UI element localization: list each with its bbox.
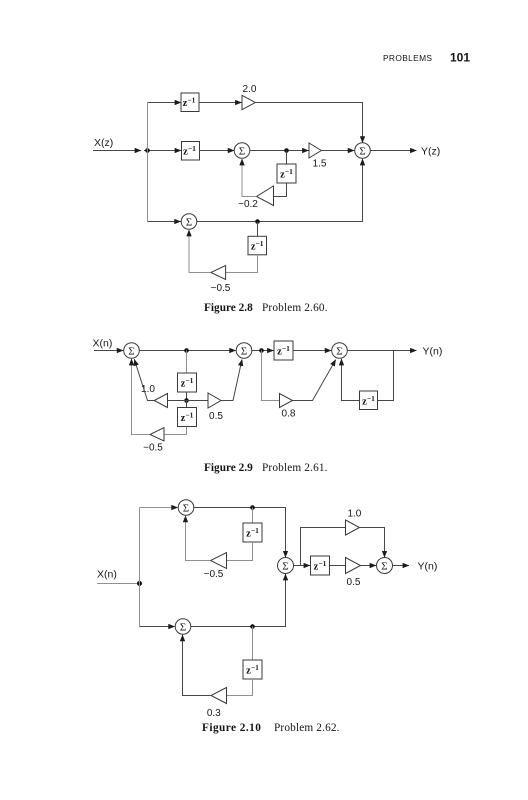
wire adder S4 to adder S5 [139,350,235,352]
wire d3 down and right to gain 0.8 [262,351,280,401]
wire gain -0.2 back to adder S1 [242,159,257,197]
wire gain 0.3 back to adder S8 bottom [183,635,212,696]
gain -0.5 triangle fig2 [150,428,164,442]
wire delay U7 to adder S6 [293,350,331,352]
wire gain 1.5 to adder S2 [321,150,354,152]
wire delay U9 to gain -0.5 fig3 [227,542,253,561]
junction dot after S1 [284,148,289,153]
delay z-1 U4 feedback row3 [248,236,267,255]
svg-text:Figure 2.10: Figure 2.10 [202,722,261,734]
adder S3 sigma [181,214,197,230]
adder S1 sigma [234,143,250,159]
svg-text:Σ: Σ [282,560,288,572]
junction dot a fig3 [250,505,255,510]
gain -0.5 triangle fig3 [211,553,227,569]
wire adder S3 to adder S2 bottom [197,159,363,222]
delay z-1 U6 [178,408,197,427]
svg-text:Σ: Σ [359,145,365,157]
wire junction through to delay box row2 [144,150,181,152]
delay z-1 U8 [360,391,378,410]
svg-text:X(z): X(z) [94,137,113,149]
junction dot input branch [145,148,150,153]
svg-text:1.5: 1.5 [313,159,327,170]
wire dot b down to delay U10 [252,627,254,661]
junction dot row3 [255,219,260,224]
svg-text:2.0: 2.0 [243,84,257,95]
svg-text:Y(n): Y(n) [423,346,443,358]
svg-text:Problem 2.61.: Problem 2.61. [262,462,328,474]
wire dot a down to delay U9 [252,508,254,524]
wire delay U5 to junction d2 [186,392,188,401]
svg-text:−0.5: −0.5 [143,443,163,454]
wire junction down into feedback delay U3 [286,151,288,165]
svg-text:1.0: 1.0 [347,509,361,520]
delay z-1 U7 [274,341,293,360]
svg-text:Problem 2.62.: Problem 2.62. [274,722,340,734]
svg-text:−0.2: −0.2 [238,199,258,210]
svg-text:Σ: Σ [186,216,192,228]
wire delay U4 to gain -0.5 [226,255,258,273]
wire branch vertical [147,103,149,222]
wire gain 0.5 diagonal to adder S5 [221,360,242,401]
svg-text:101: 101 [450,51,470,65]
svg-text:Σ: Σ [381,560,387,572]
wire X(z) input to junction [93,150,141,152]
delay z-1 U5 [178,373,197,392]
wire adder S7 to adder S9 top [194,508,286,558]
adder S7 sigma [178,500,194,516]
gain 2.0 triangle [242,95,255,109]
wire branch to delay box row1 [148,102,182,104]
wire branch vertical fig3 [139,508,141,627]
svg-text:Figure 2.9: Figure 2.9 [204,462,253,474]
wire branch top to adder S7 [140,507,178,509]
wire gain 0.5 to adder S10 [361,565,377,567]
gain 0.8 triangle [280,394,293,408]
svg-text:Figure 2.8: Figure 2.8 [204,302,253,314]
wire delay U3 to gain -0.2 [274,183,287,197]
wire d1 down to delay U5 [186,351,188,374]
wire d2 to gain 0.5 [187,400,209,402]
wire gain -0.5 back to adder S4 bottom [132,359,151,435]
gain -0.2 triangle [257,186,274,206]
wire gain 2.0 to adder S2 top [255,103,362,143]
wire gain -0.5 back to adder S7 bottom [186,516,211,561]
gain 0.5 triangle fig3 [346,558,361,574]
delay z-1 U10 [243,660,262,679]
wire delay U10 to gain 0.3 [227,679,253,696]
gain 1.5 triangle [309,143,321,158]
svg-text:Σ: Σ [128,345,134,357]
adder S10 sigma [377,558,393,574]
wire tee up to gain 1.0 [301,528,346,566]
wire delay U6 to gain -0.5 fig2 [164,427,187,435]
svg-text:Σ: Σ [336,345,342,357]
junction dot b fig3 [250,624,255,629]
delay z-1 U2 row2 [182,142,200,161]
wire delay row2 to adder S1 [200,150,235,152]
adder S2 sigma [355,143,371,159]
adder S9 sigma [278,558,294,574]
gain 0.3 triangle [211,688,227,704]
wire delay U11 to gain 0.5 fig3 [330,565,346,567]
svg-text:Σ: Σ [180,621,186,633]
wire gain 0.8 diagonal to adder S6 [293,360,336,401]
junction dot input fig3 [137,581,142,586]
junction dot d3 fig2 [259,348,264,353]
wire X(n) input to adder S4 [94,350,123,352]
gain 1.0 triangle [154,394,167,408]
delay z-1 U3 feedback [277,164,296,183]
svg-text:0.5: 0.5 [347,577,361,588]
svg-text:−0.5: −0.5 [204,569,224,580]
wire delay U8 back to adder S6 bottom [342,359,360,401]
junction dot d1 fig2 [184,348,189,353]
wire adder S6 to output Y(n) [347,350,416,352]
wire d2 down to delay U6 [186,401,188,408]
wire output tee down to delay U8 [378,351,394,401]
svg-text:Σ: Σ [183,502,189,514]
gain -0.5 triangle [211,266,226,280]
wire branch bottom to adder S8 [140,626,175,628]
wire adder S9 to delay U11 [294,565,311,567]
svg-text:X(n): X(n) [97,569,117,581]
junction dot d2 fig2 [184,398,189,403]
adder S6 sigma [332,343,348,359]
svg-text:Σ: Σ [239,145,245,157]
svg-text:0.3: 0.3 [207,708,221,719]
wire adder S2 to output Y(z) [370,150,416,152]
adder S4 sigma [124,343,140,359]
gain 1.0 triangle fig3 [346,520,360,535]
svg-text:Y(n): Y(n) [418,561,438,573]
wire branch to adder S3 row3 [148,221,181,223]
svg-text:Y(z): Y(z) [421,146,440,158]
svg-text:0.5: 0.5 [209,411,223,422]
svg-text:0.8: 0.8 [282,409,296,420]
delay z-1 U9 [243,523,262,542]
adder S5 sigma [236,343,252,359]
delay z-1 U1 row1 [181,93,199,112]
wire junction down into delay U4 [257,222,259,237]
svg-text:Σ: Σ [241,345,247,357]
wire d2 to gain 1.0 [168,400,187,402]
wire delay row1 to gain 2.0 [199,102,242,104]
wire adder S1 to gain 1.5 [250,150,309,152]
gain 0.5 triangle fig2 [208,393,221,408]
svg-text:PROBLEMS: PROBLEMS [383,53,432,63]
wire gain 1.0 to adder S10 top [360,528,385,558]
wire X(n) input to junction fig3 [97,583,140,585]
svg-text:−0.5: −0.5 [211,283,231,294]
delay z-1 U11 [311,556,330,575]
svg-text:X(n): X(n) [93,338,113,350]
wire gain 1.0 diagonal to adder S4 [134,359,154,400]
wire adder S8 to adder S9 bottom [191,574,286,627]
adder S8 sigma [175,619,191,635]
wire adder S10 to output Y(n) fig3 [393,565,410,567]
wire adder S5 to delay U7 [252,350,274,352]
svg-text:Problem 2.60.: Problem 2.60. [262,302,328,314]
wire gain -0.5 back to adder S3 [189,230,211,273]
